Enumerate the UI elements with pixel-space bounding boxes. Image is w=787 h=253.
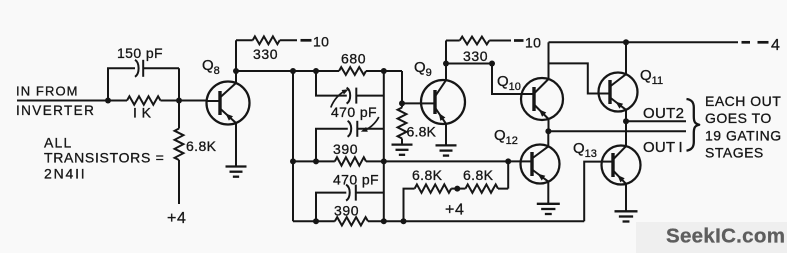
svg-text:OUT: OUT [643, 139, 675, 156]
label ALL [44, 135, 73, 151]
wire OUT2 line [626, 120, 686, 122]
capacitor C4 470pF [346, 185, 356, 201]
label -4 [771, 37, 780, 54]
transistor Q9 [421, 80, 466, 124]
label 680 [341, 51, 366, 67]
junction OUT2 tap [623, 118, 629, 124]
resistor R1 1K [108, 96, 179, 104]
svg-text:EACH OUT: EACH OUT [705, 93, 781, 109]
svg-text:I: I [679, 139, 683, 156]
junction Q10-Q12 node [545, 128, 551, 134]
label Q9 [414, 59, 432, 79]
supply -10 dash b [514, 39, 524, 42]
svg-text:+4: +4 [167, 210, 186, 227]
label 330 R3 [253, 46, 278, 62]
svg-text:I K: I K [133, 105, 152, 121]
label 1K [133, 105, 152, 121]
transistor Q13 [601, 146, 641, 185]
label +4 left [167, 210, 186, 227]
label +4 mid [445, 202, 464, 219]
svg-text:6.8K: 6.8K [407, 124, 437, 140]
svg-text:STAGES: STAGES [705, 144, 764, 160]
wire 6.8K pair to base line [498, 161, 508, 188]
wire Q10 emitter [548, 119, 550, 131]
svg-text:330: 330 [463, 48, 488, 64]
ground Q13 [615, 211, 638, 221]
resistor R2 6.8K [175, 101, 184, 205]
svg-text:ALL: ALL [44, 135, 73, 151]
svg-text:SeekIC.com: SeekIC.com [666, 225, 785, 248]
svg-text:Q9: Q9 [414, 59, 432, 79]
junction input-left [105, 98, 111, 104]
transistor Q12 [520, 145, 560, 184]
label Q10 [497, 73, 521, 93]
wire Q9 collector riser [445, 41, 447, 81]
svg-text:GOES TO: GOES TO [705, 110, 772, 126]
svg-text:6.8K: 6.8K [463, 167, 494, 183]
wire 6.8K pair riser [404, 189, 415, 222]
transistor Q11 [598, 73, 638, 112]
svg-text:4: 4 [771, 37, 780, 54]
svg-text:Q12: Q12 [494, 127, 518, 147]
junction row6 R-bus [381, 218, 387, 224]
ground Q8 [226, 167, 247, 177]
wire between 6.8Ks [451, 188, 465, 190]
wire base Q8 [179, 100, 207, 102]
label 6.8K R7 [407, 124, 437, 140]
svg-text:2N4II: 2N4II [44, 166, 86, 182]
junction Q11 collector rail [623, 39, 629, 45]
brace outputs [687, 99, 700, 151]
label 150 pF [117, 45, 163, 61]
junction bottom rail tap [401, 218, 407, 224]
wire Q12 collector riser [547, 131, 549, 146]
label Q12 [494, 127, 518, 147]
svg-text:470 pF: 470 pF [333, 172, 379, 188]
svg-text:IN FROM: IN FROM [16, 84, 79, 99]
label 470 pF lower [333, 172, 379, 188]
junction row4 L-bus [290, 158, 296, 164]
junction Q8 collector rail [233, 68, 239, 74]
junction Q10 base corner [489, 61, 495, 67]
label GOES TO [705, 110, 772, 126]
svg-text:10: 10 [313, 34, 329, 50]
wire Q10 collector riser [548, 42, 550, 79]
label Q8 [202, 57, 220, 77]
watermark SeekIC.com [666, 225, 785, 248]
label 330 R8 [463, 48, 488, 64]
label -10 b [525, 35, 541, 51]
svg-text:TRANSISTORS =: TRANSISTORS = [44, 150, 164, 166]
arrow to C2 [331, 89, 349, 107]
label 470 pF upper [331, 104, 377, 120]
wire Q11 base branch [549, 63, 599, 93]
resistor R6 390 [335, 217, 368, 225]
capacitor C1 150pF [135, 60, 143, 77]
svg-text:+4: +4 [445, 202, 464, 219]
junction Q9 base [399, 100, 405, 106]
label 390 lower [334, 203, 359, 219]
resistor R10 6.8K [465, 184, 498, 192]
wire Q13 emitter [625, 184, 627, 211]
svg-text:150 pF: 150 pF [117, 45, 163, 61]
resistor R3 330 [236, 36, 297, 44]
wire L-bus [292, 71, 294, 221]
resistor R5 390 [335, 157, 366, 165]
wire node A rail [236, 70, 402, 72]
capacitor C2 470pF trimmer [347, 88, 357, 104]
svg-text:Q13: Q13 [573, 140, 597, 160]
arrow to C3 [361, 117, 379, 132]
label 2N411 [44, 166, 86, 182]
label 6.8K R9 [412, 167, 443, 183]
wire node B row (390 upper) [293, 160, 521, 162]
label INVERTER [16, 103, 95, 118]
ground Q9 [436, 145, 457, 155]
junction rail R-bus [381, 68, 387, 74]
label STAGES [705, 144, 764, 160]
svg-text:6.8K: 6.8K [412, 167, 443, 183]
wire Q9 to Q10 base [446, 64, 521, 95]
transistor Q8 [206, 82, 250, 125]
svg-text:6.8K: 6.8K [186, 138, 217, 154]
wire Q9 emitter [445, 124, 447, 145]
wire rail corner to Q9 base [402, 71, 421, 103]
label IN FROM [16, 84, 79, 99]
node IN (input line from inverter) [17, 100, 108, 102]
supply -10 dash [301, 39, 312, 42]
svg-text:INVERTER: INVERTER [16, 103, 95, 118]
wire Q11 collector riser [625, 42, 627, 74]
ground Q12 [537, 204, 560, 214]
supply -4 dashes [742, 41, 769, 44]
svg-text:330: 330 [253, 46, 278, 62]
svg-text:OUT2: OUT2 [643, 105, 684, 122]
svg-text:470 pF: 470 pF [331, 104, 377, 120]
wire 150pF branch right [143, 68, 179, 100]
wire Q12 emitter [547, 182, 549, 204]
ground R7 [392, 145, 413, 155]
resistor R9 6.8K [415, 184, 452, 192]
label 6.8K R2 [186, 138, 217, 154]
watermark band [636, 222, 787, 253]
svg-text:Q11: Q11 [640, 67, 663, 87]
wire bottom row (390 lower) [293, 220, 584, 222]
junction Q9 collector branch [443, 61, 449, 67]
label 390 upper [333, 141, 358, 157]
label Q13 [573, 140, 597, 160]
junction row4 R-bus [381, 158, 387, 164]
junction rail cap1-left [313, 68, 319, 74]
junction row4 cap2-left [313, 158, 319, 164]
wire cap1 row [316, 71, 384, 96]
capacitor C3 470pF trimmer [348, 121, 358, 137]
wire 150pF branch left riser [108, 68, 135, 100]
wire Q11 emitter to Q13 [625, 110, 627, 147]
label OUT1 [643, 139, 683, 156]
wire OUT1 line [548, 130, 686, 132]
svg-text:390: 390 [334, 203, 359, 219]
wire Q13 base feed [584, 162, 602, 222]
resistor R7 6.8K [398, 103, 407, 143]
junction row6 cap3-left [313, 218, 319, 224]
resistor R4 680 [339, 67, 366, 75]
wire Q8 collector riser [235, 40, 237, 83]
junction Q12 base tap [505, 158, 511, 164]
label TRANSISTORS = [44, 150, 164, 166]
svg-text:19 GATING: 19 GATING [705, 128, 782, 144]
junction +4 mid [454, 186, 460, 192]
wire R-bus [383, 71, 385, 221]
label 6.8K R10 [463, 167, 494, 183]
label EACH OUT [705, 93, 781, 109]
junction input-right [176, 98, 182, 104]
svg-text:680: 680 [341, 51, 366, 67]
label 19 GATING [705, 128, 782, 144]
resistor R8 330 [446, 37, 511, 45]
wire cap2 row [316, 129, 384, 162]
wire Q8 emitter [235, 123, 237, 166]
wire cap3 row [316, 193, 384, 222]
svg-text:Q8: Q8 [202, 57, 220, 77]
wire -4 rail [549, 41, 739, 43]
label Q11 [640, 67, 663, 87]
label OUT2 [643, 105, 684, 122]
junction rail L-bus [290, 68, 296, 74]
svg-text:10: 10 [525, 35, 541, 51]
transistor Q10 [521, 78, 564, 120]
svg-text:390: 390 [333, 141, 358, 157]
svg-text:Q10: Q10 [497, 73, 521, 93]
label -10 a [313, 34, 329, 50]
